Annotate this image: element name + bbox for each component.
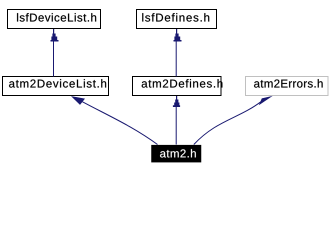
node atm2Errors.h <box>246 77 329 96</box>
node atm2DeviceList.h <box>3 77 109 96</box>
node atm2Defines.h <box>133 77 223 96</box>
edge atm2.h to atm2Errors.h <box>194 96 273 145</box>
node atm2.h <box>151 145 201 163</box>
node lsfDefines.h <box>137 10 217 29</box>
node lsfDeviceList.h <box>8 10 101 29</box>
edge atm2.h to atm2Defines.h <box>173 96 180 145</box>
edge atm2.h to atm2DeviceList.h <box>71 96 158 144</box>
edge atm2Defines.h to lsfDefines.h <box>174 29 182 77</box>
edge atm2DeviceList.h to lsfDeviceList.h <box>51 29 59 77</box>
